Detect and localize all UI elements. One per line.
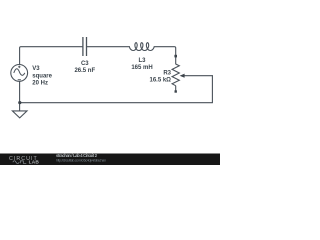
wire source bottom to ground junction <box>19 82 21 103</box>
svg-text:R3: R3 <box>163 70 171 76</box>
ground <box>12 103 27 118</box>
R3 bottom terminal <box>175 90 177 92</box>
resistor R3 (potentiometer) <box>172 64 179 86</box>
junction dot at ground node <box>18 101 21 104</box>
wire wiper horizontal <box>184 75 212 77</box>
wire top-left: source top to capacitor <box>20 47 83 65</box>
svg-text:L3: L3 <box>138 58 146 64</box>
capacitor C3 <box>83 37 87 56</box>
svg-text:V3: V3 <box>32 66 40 72</box>
svg-text:strachan / Lab 4 Circuit 2: strachan / Lab 4 Circuit 2 <box>56 153 98 158</box>
wire inductor to R3 corner <box>154 47 176 56</box>
inductor L3 <box>129 43 154 51</box>
wire bottom rail <box>20 102 213 104</box>
wire capacitor to inductor <box>87 46 130 48</box>
svg-text:26.5 nF: 26.5 nF <box>74 68 95 74</box>
banner <box>0 154 220 166</box>
svg-text:165 mH: 165 mH <box>131 65 152 71</box>
logo waveform squiggle <box>13 161 26 164</box>
svg-text:16.5 kΩ: 16.5 kΩ <box>150 78 172 84</box>
svg-text:square: square <box>32 73 52 79</box>
wire R3 terminal lead <box>175 56 177 64</box>
R3 bottom lead <box>175 86 177 91</box>
svg-text:C3: C3 <box>81 61 89 67</box>
svg-text:http://circuitlab.com/c/6c4qk4: http://circuitlab.com/c/6c4qk4/strachan <box>56 159 106 163</box>
svg-text:20 Hz: 20 Hz <box>32 81 48 87</box>
R3 top terminal <box>174 55 177 58</box>
wire right riser <box>211 76 213 103</box>
voltage source V3 <box>11 65 28 82</box>
R3 wiper arrowhead <box>180 74 185 78</box>
svg-text:LAB: LAB <box>29 160 40 165</box>
